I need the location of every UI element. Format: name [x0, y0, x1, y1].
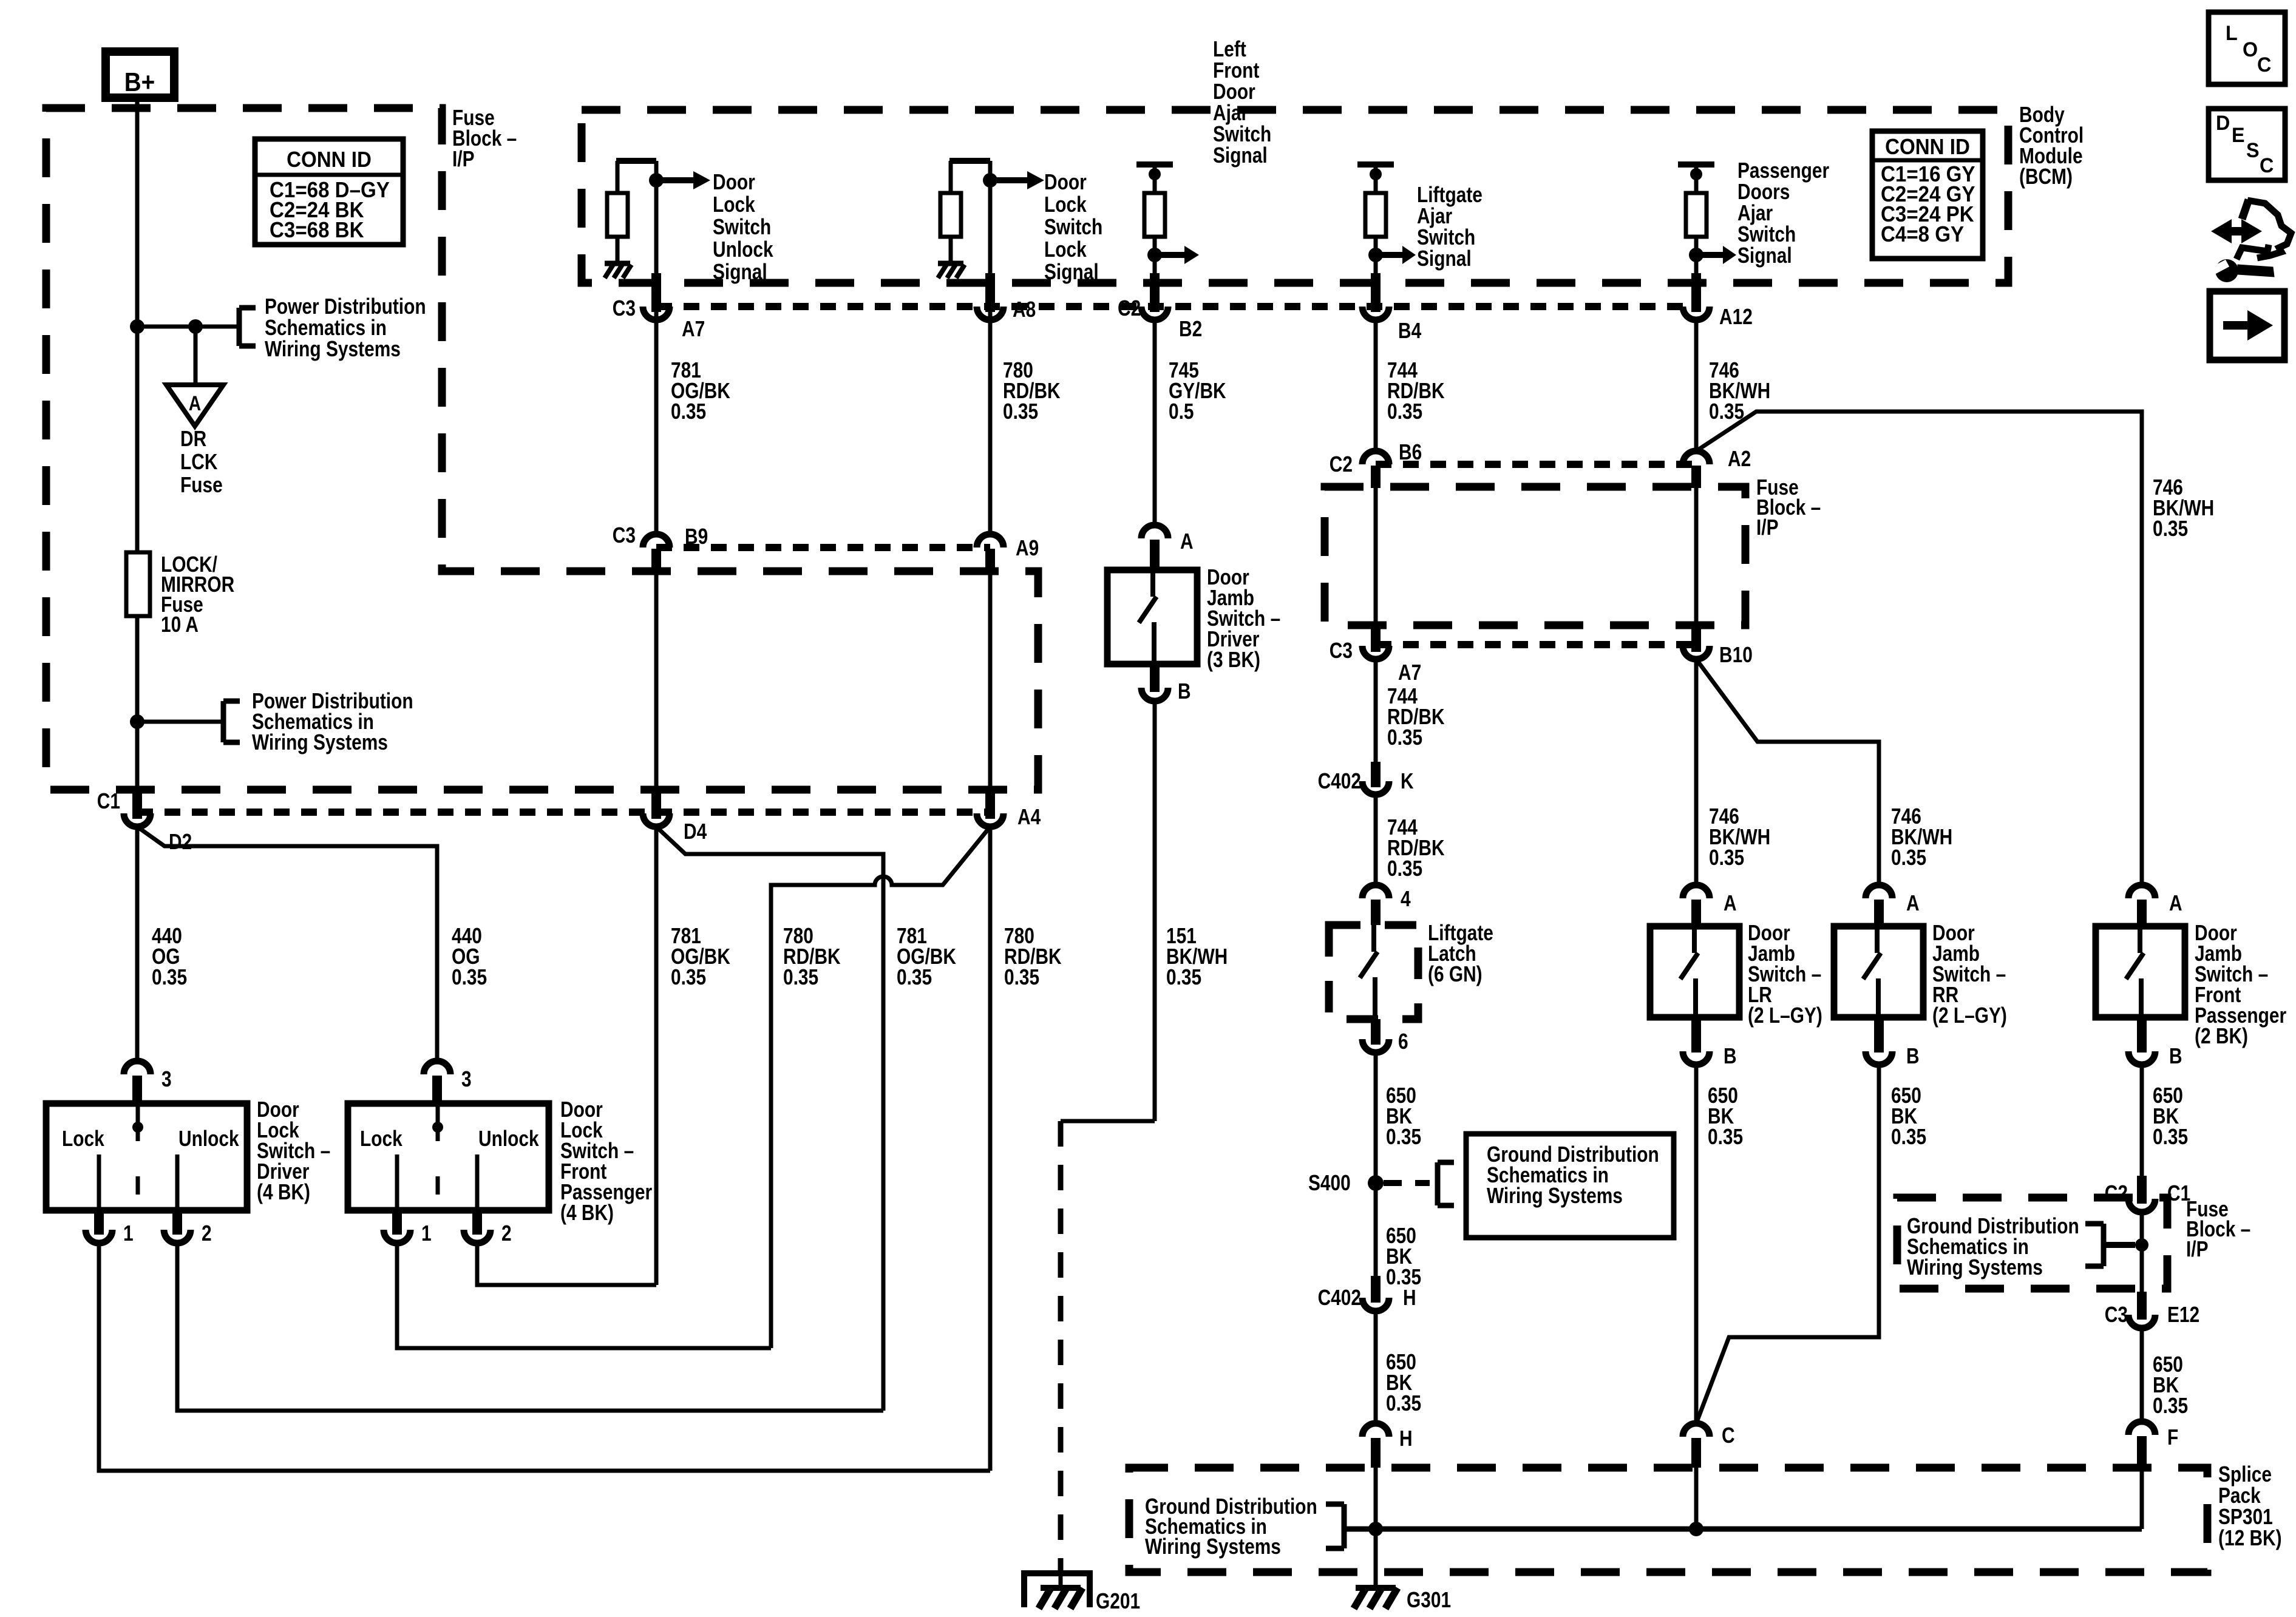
svg-text:B: B	[2169, 1044, 2182, 1068]
svg-text:(3 BK): (3 BK)	[1207, 648, 1260, 672]
svg-text:I/P: I/P	[1756, 515, 1779, 540]
svg-text:(12 BK): (12 BK)	[2218, 1526, 2282, 1550]
svg-text:3: 3	[461, 1067, 472, 1091]
svg-text:B2: B2	[1179, 317, 1202, 341]
svg-text:B+: B+	[124, 67, 155, 97]
svg-text:4: 4	[1401, 887, 1411, 911]
svg-text:Signal: Signal	[713, 260, 767, 284]
svg-text:0.35: 0.35	[1891, 846, 1926, 870]
svg-text:Wiring Systems: Wiring Systems	[252, 730, 388, 754]
svg-text:S400: S400	[1308, 1171, 1351, 1195]
svg-text:0.35: 0.35	[671, 965, 706, 989]
svg-text:Switch: Switch	[1044, 215, 1102, 239]
svg-text:0.35: 0.35	[897, 965, 932, 989]
svg-text:Signal: Signal	[1213, 143, 1268, 168]
svg-text:LCK: LCK	[180, 450, 218, 474]
svg-text:C3: C3	[613, 523, 636, 547]
svg-text:D: D	[2216, 112, 2230, 135]
svg-text:G201: G201	[1096, 1589, 1140, 1613]
svg-text:(4 BK): (4 BK)	[257, 1180, 310, 1204]
svg-text:F: F	[2167, 1425, 2178, 1449]
svg-text:Unlock: Unlock	[178, 1127, 239, 1151]
svg-text:E: E	[2232, 124, 2245, 147]
svg-text:Unlock: Unlock	[713, 237, 773, 262]
svg-text:0.35: 0.35	[671, 399, 706, 424]
svg-text:Unlock: Unlock	[478, 1127, 539, 1151]
svg-text:B9: B9	[685, 524, 708, 549]
svg-text:0.35: 0.35	[1387, 856, 1422, 881]
svg-text:C3: C3	[2105, 1303, 2128, 1327]
svg-text:H: H	[1399, 1426, 1413, 1451]
svg-text:0.35: 0.35	[1387, 399, 1422, 424]
svg-text:0.35: 0.35	[1709, 846, 1744, 870]
svg-text:(2 L–GY): (2 L–GY)	[1932, 1003, 2007, 1028]
svg-text:Door: Door	[1044, 170, 1087, 194]
svg-text:0.35: 0.35	[1386, 1125, 1421, 1149]
svg-text:(2 L–GY): (2 L–GY)	[1748, 1003, 1822, 1028]
svg-text:Lock: Lock	[713, 192, 755, 217]
svg-text:A: A	[1906, 891, 1920, 915]
svg-text:Lock: Lock	[1044, 237, 1087, 262]
svg-text:A9: A9	[1016, 536, 1039, 560]
svg-text:D2: D2	[169, 830, 192, 854]
svg-text:0.35: 0.35	[2153, 1394, 2188, 1418]
svg-text:Fuse: Fuse	[180, 473, 223, 497]
svg-text:Signal: Signal	[1417, 246, 1472, 271]
svg-text:O: O	[2243, 38, 2258, 61]
svg-text:(4 BK): (4 BK)	[560, 1201, 614, 1225]
svg-text:0.35: 0.35	[783, 965, 818, 989]
svg-text:L: L	[2226, 22, 2238, 45]
svg-text:G301: G301	[1407, 1588, 1451, 1612]
svg-text:C4=8 GY: C4=8 GY	[1881, 223, 1964, 247]
svg-text:0.35: 0.35	[1166, 965, 1201, 989]
svg-text:0.35: 0.35	[452, 965, 487, 989]
svg-text:C402: C402	[1318, 1286, 1361, 1310]
svg-text:C2: C2	[2105, 1181, 2128, 1205]
svg-text:Signal: Signal	[1737, 243, 1792, 268]
svg-text:B6: B6	[1399, 440, 1422, 464]
svg-text:C3: C3	[1330, 639, 1353, 663]
svg-text:0.35: 0.35	[1387, 725, 1422, 750]
svg-text:H: H	[1403, 1286, 1416, 1310]
svg-text:C: C	[2260, 154, 2274, 177]
svg-text:A4: A4	[1017, 805, 1041, 829]
svg-text:1: 1	[421, 1221, 432, 1246]
svg-text:1: 1	[123, 1221, 134, 1246]
svg-text:6: 6	[1398, 1029, 1408, 1054]
svg-text:C3: C3	[613, 296, 636, 320]
svg-text:Switch: Switch	[713, 215, 771, 239]
svg-text:I/P: I/P	[452, 147, 475, 171]
svg-text:(BCM): (BCM)	[2019, 164, 2073, 189]
svg-text:S: S	[2246, 139, 2260, 162]
svg-text:10 A: 10 A	[161, 612, 199, 637]
svg-text:CONN ID: CONN ID	[287, 148, 372, 172]
svg-text:Lock: Lock	[62, 1127, 104, 1151]
svg-text:Signal: Signal	[1044, 260, 1099, 284]
svg-text:A: A	[2169, 891, 2182, 915]
svg-text:0.35: 0.35	[1891, 1125, 1926, 1149]
svg-text:0.35: 0.35	[1003, 399, 1038, 424]
svg-text:A2: A2	[1728, 447, 1751, 471]
svg-text:2: 2	[202, 1221, 212, 1246]
svg-text:Door: Door	[713, 170, 755, 194]
svg-text:C: C	[1722, 1423, 1735, 1448]
svg-text:0.35: 0.35	[1004, 965, 1039, 989]
svg-text:B: B	[1906, 1044, 1920, 1068]
svg-text:0.5: 0.5	[1169, 399, 1194, 424]
svg-text:Lock: Lock	[1044, 192, 1087, 217]
svg-text:A12: A12	[1719, 305, 1753, 329]
svg-text:C3=68 BK: C3=68 BK	[270, 219, 364, 243]
svg-text:3: 3	[161, 1067, 172, 1091]
svg-text:DR: DR	[180, 427, 206, 451]
svg-text:Wiring Systems: Wiring Systems	[1907, 1255, 2043, 1280]
svg-text:A: A	[189, 392, 201, 415]
svg-text:E12: E12	[2167, 1303, 2199, 1327]
svg-text:2: 2	[501, 1221, 512, 1246]
svg-text:C2: C2	[1118, 296, 1141, 320]
svg-text:0.35: 0.35	[1386, 1391, 1421, 1415]
svg-text:D4: D4	[684, 819, 707, 844]
svg-text:A: A	[1180, 529, 1194, 554]
svg-text:Wiring Systems: Wiring Systems	[1487, 1184, 1623, 1208]
svg-text:A8: A8	[1013, 297, 1036, 322]
svg-text:B: B	[1724, 1044, 1737, 1068]
svg-text:C: C	[2257, 53, 2271, 76]
svg-text:K: K	[1401, 769, 1414, 793]
svg-text:0.35: 0.35	[152, 965, 187, 989]
svg-text:(6 GN): (6 GN)	[1428, 962, 1483, 986]
svg-text:B10: B10	[1719, 643, 1753, 667]
svg-text:0.35: 0.35	[1708, 1125, 1743, 1149]
svg-text:Wiring Systems: Wiring Systems	[265, 337, 401, 361]
svg-text:A7: A7	[682, 317, 705, 341]
svg-text:Lock: Lock	[360, 1127, 402, 1151]
svg-text:C1: C1	[97, 789, 120, 813]
svg-text:Wiring Systems: Wiring Systems	[1145, 1534, 1281, 1559]
svg-text:CONN ID: CONN ID	[1885, 135, 1970, 160]
svg-text:0.35: 0.35	[2153, 517, 2188, 541]
svg-text:I/P: I/P	[2186, 1237, 2209, 1261]
svg-text:(2 BK): (2 BK)	[2195, 1024, 2248, 1048]
svg-text:B: B	[1178, 679, 1191, 703]
svg-text:A: A	[1724, 891, 1737, 915]
svg-text:0.35: 0.35	[2153, 1125, 2188, 1149]
svg-text:C402: C402	[1318, 769, 1361, 793]
svg-text:C2: C2	[1330, 452, 1353, 476]
svg-text:B4: B4	[1398, 319, 1422, 343]
svg-text:A7: A7	[1398, 660, 1421, 685]
